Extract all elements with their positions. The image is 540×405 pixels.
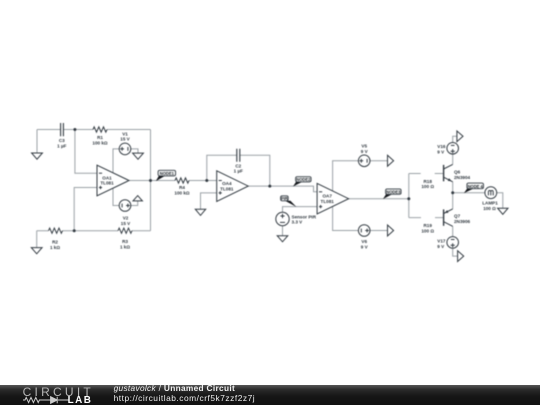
svg-text:2N3906: 2N3906 (454, 219, 471, 224)
svg-text:R2: R2 (52, 239, 58, 244)
svg-text:NODE1: NODE1 (160, 171, 175, 176)
svg-text:OA1: OA1 (102, 175, 112, 180)
svg-text:100 Ω: 100 Ω (421, 228, 434, 233)
svg-text:1 kΩ: 1 kΩ (120, 244, 130, 249)
svg-text:C2: C2 (235, 163, 241, 168)
svg-text:9 V: 9 V (437, 150, 445, 155)
svg-text:TL081: TL081 (100, 181, 114, 186)
svg-text:R4: R4 (179, 185, 185, 190)
svg-text:C3: C3 (59, 138, 65, 143)
svg-text:9 V: 9 V (361, 149, 369, 154)
svg-text:R1: R1 (97, 135, 103, 140)
svg-text:15 V: 15 V (121, 221, 131, 226)
svg-text:V17: V17 (437, 239, 446, 244)
svg-text:LAMP1: LAMP1 (482, 201, 498, 206)
svg-text:OA7: OA7 (322, 194, 332, 199)
svg-text:TL081: TL081 (321, 199, 335, 204)
svg-text:V16: V16 (437, 144, 446, 149)
svg-text:Sensor PIR: Sensor PIR (292, 214, 317, 219)
svg-text:NODE 4: NODE 4 (468, 184, 484, 189)
svg-text:1 µF: 1 µF (234, 169, 243, 174)
svg-text:NODE3: NODE3 (386, 190, 401, 195)
svg-text:TL081: TL081 (220, 186, 234, 191)
svg-text:1 kΩ: 1 kΩ (50, 245, 60, 250)
svg-text:1 µF: 1 µF (57, 143, 66, 148)
svg-text:2N3904: 2N3904 (454, 175, 471, 180)
svg-text:R3: R3 (122, 239, 128, 244)
svg-text:NODE2: NODE2 (296, 177, 311, 182)
svg-text:9 V: 9 V (361, 244, 369, 249)
svg-text:V6: V6 (361, 239, 367, 244)
svg-text:9 V: 9 V (437, 244, 445, 249)
svg-text:15 V: 15 V (120, 137, 130, 142)
svg-text:100 Ω: 100 Ω (421, 184, 434, 189)
svg-text:PIR: PIR (281, 196, 288, 201)
svg-text:R18: R18 (423, 179, 432, 184)
svg-text:R19: R19 (423, 223, 432, 228)
svg-text:3.3 V: 3.3 V (292, 220, 304, 225)
svg-text:V2: V2 (123, 216, 129, 221)
svg-text:Q7: Q7 (454, 214, 461, 219)
svg-text:OA4: OA4 (222, 181, 232, 186)
svg-text:100 kΩ: 100 kΩ (174, 190, 189, 195)
svg-text:100 kΩ: 100 kΩ (92, 140, 107, 145)
svg-text:V5: V5 (361, 143, 367, 148)
svg-text:Q6: Q6 (454, 169, 461, 174)
svg-text:V1: V1 (122, 131, 128, 136)
svg-text:100 Ω: 100 Ω (483, 206, 496, 211)
